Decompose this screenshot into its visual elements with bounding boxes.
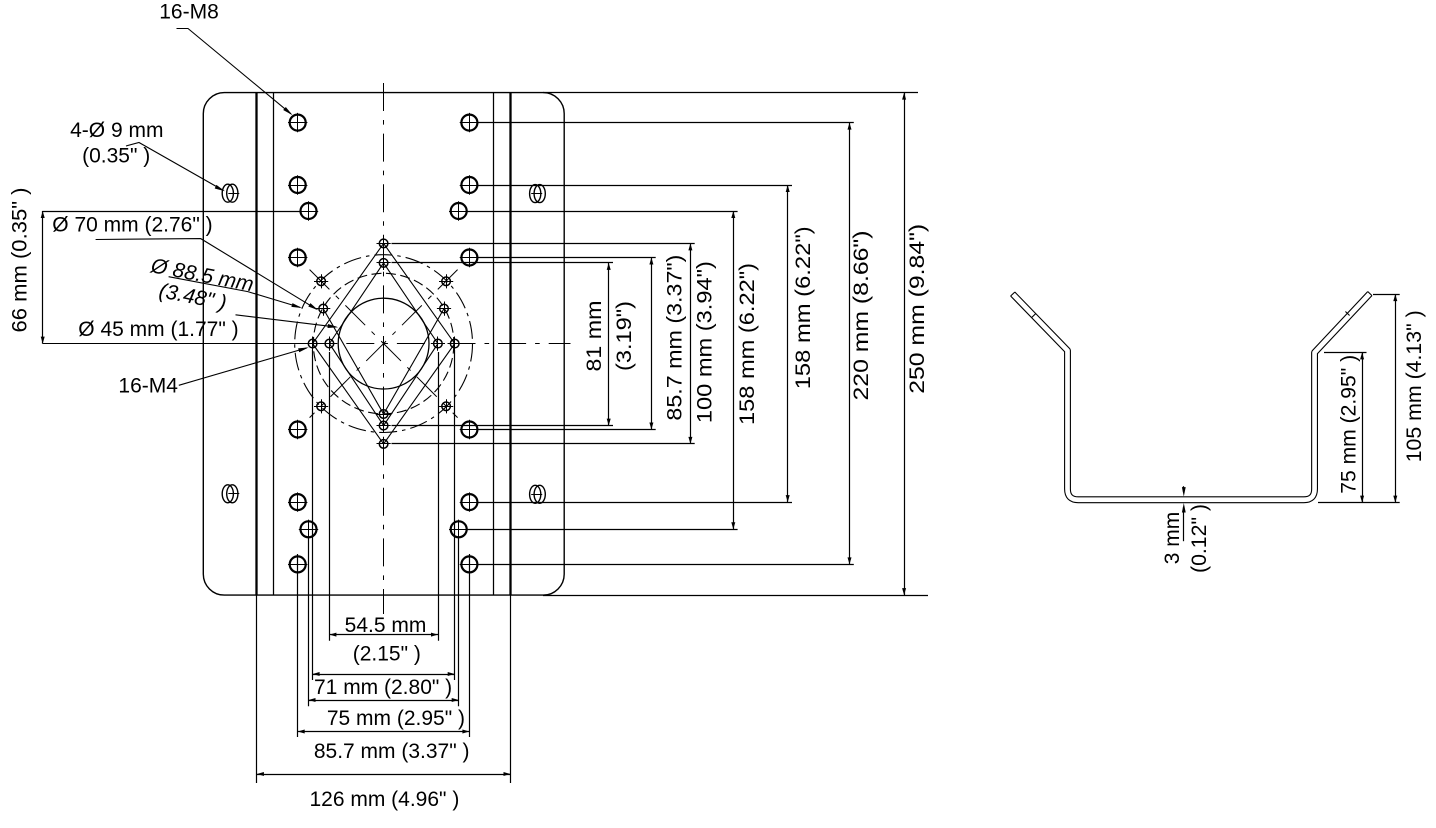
M8 hole left offset top: [299, 201, 318, 220]
svg-text:16-M8: 16-M8: [159, 1, 219, 24]
dim 3 mm lower leader: [1182, 503, 1186, 541]
svg-text:(3.19"): (3.19"): [613, 301, 636, 371]
extension line offset hole left: [308, 537, 310, 706]
M8 hole right offset bottom: [449, 520, 468, 539]
M4 hole upper-left 45deg: [314, 274, 328, 288]
bend line left (thick): [255, 93, 257, 595]
oval hole D9 bottom-right: [530, 485, 546, 503]
extension line M8 column right: [469, 554, 471, 737]
V line right: [384, 309, 444, 414]
M4 hole bottom D70: [377, 407, 391, 421]
M4 hole top outer: [377, 236, 391, 250]
extension line M4 bottom inner: [392, 425, 614, 427]
svg-text:85.7 mm (3.37" ): 85.7 mm (3.37" ): [314, 740, 470, 763]
dim line 250 mm: [902, 93, 906, 595]
extension line channel inner bend: [1324, 352, 1367, 354]
extension line 66mm lower (solid overlay): [43, 343, 309, 345]
oval hole D9 bottom-left: [222, 485, 239, 503]
extension line offset row bottom: [467, 529, 738, 531]
extension line channel bottom: [1318, 502, 1400, 504]
svg-text:Ø 45 mm (1.77" ): Ø 45 mm (1.77" ): [78, 318, 238, 341]
extension line offset row top: [467, 211, 738, 213]
dim line 75 mm channel: [1360, 352, 1364, 502]
M8 hole right offset top: [449, 201, 468, 220]
svg-text:71 mm (2.80" ): 71 mm (2.80" ): [314, 676, 452, 699]
extension line bend line left: [256, 595, 258, 783]
dim line 100 mm: [688, 243, 692, 444]
extension line channel flange top: [1373, 294, 1400, 296]
extension line M8 row4: [477, 429, 655, 431]
dim line 66 mm: [41, 211, 45, 344]
dim line 105 mm channel: [1393, 294, 1397, 503]
V line left: [323, 309, 383, 414]
oval hole D9 top-left: [222, 184, 239, 202]
fold relief line right (thin): [493, 93, 495, 595]
diagonal centerline NW-SE (dash-dot): [310, 270, 458, 418]
svg-text:(0.12" ): (0.12" ): [1188, 504, 1211, 573]
bolt circle D70 (dashed): [313, 273, 454, 414]
channel left tip cap: [1011, 292, 1015, 296]
bolt circle D88.5 (dash-dot): [295, 255, 473, 433]
extension line M4 right outer: [454, 350, 456, 680]
svg-text:75 mm (2.95" ): 75 mm (2.95" ): [327, 707, 465, 730]
vertical centerline: [383, 83, 385, 614]
dim line 85.7 mm bottom: [298, 730, 470, 734]
inner rhombus: [329, 263, 438, 426]
M4 hole top inner: [377, 256, 391, 270]
svg-text:81 mm: 81 mm: [583, 301, 606, 372]
M4 hole right inner: [431, 337, 445, 351]
M4 hole left outer: [306, 337, 320, 351]
M4 hole left inner: [322, 337, 336, 351]
extension line M8 row3: [477, 257, 655, 259]
extension line M8 column left: [297, 554, 299, 737]
oval hole D9 top-right: [530, 185, 546, 203]
svg-text:(2.15" ): (2.15" ): [353, 643, 421, 666]
extension line M8 row5: [477, 502, 792, 504]
M8 hole right row3: [460, 248, 479, 267]
svg-text:4-Ø 9 mm: 4-Ø 9 mm: [70, 119, 163, 142]
dim line 126 mm: [257, 772, 511, 776]
extension line M4 bottom outer: [392, 443, 695, 445]
M8 hole left row6: [288, 555, 307, 574]
leader 16-M8: [177, 29, 293, 116]
M8 hole left row4: [288, 420, 307, 439]
M8 hole right row2: [460, 175, 479, 194]
diagonal centerline NE-SW (dash-dot): [310, 270, 458, 418]
leader D70: [96, 239, 319, 311]
extension line M4 top outer: [392, 243, 695, 245]
extension line M4 top inner: [392, 262, 614, 264]
dim line 71 mm: [313, 672, 455, 676]
M4 hole bottom inner: [377, 419, 391, 433]
dim line 85.7 mm vertical: [649, 258, 653, 430]
svg-text:158 mm (6.22"): 158 mm (6.22"): [736, 263, 759, 425]
extension line M4 right inner: [438, 352, 440, 641]
svg-text:75 mm (2.95" ): 75 mm (2.95" ): [1338, 355, 1361, 494]
M4 hole right outer: [448, 337, 462, 351]
dim line 54.5 mm: [329, 633, 438, 637]
M8 hole right row4: [460, 420, 479, 439]
svg-text:105 mm (4.13" ): 105 mm (4.13" ): [1403, 310, 1426, 462]
channel cross-section profile: [1013, 294, 1370, 500]
plate outline: [203, 93, 564, 595]
svg-text:220 mm (8.66"): 220 mm (8.66"): [850, 231, 873, 401]
extension line offset hole right: [458, 537, 460, 706]
extension line M8 row1: [477, 122, 854, 124]
M8 hole right row5: [460, 492, 479, 511]
extension line bend line right: [510, 595, 512, 783]
center hole circle D45: [338, 298, 429, 389]
M4 hole upper-left 30deg: [316, 302, 330, 316]
M8 hole right row6: [460, 555, 479, 574]
svg-text:100 mm (3.94"): 100 mm (3.94"): [693, 261, 716, 423]
svg-text:Ø 70 mm (2.76" ): Ø 70 mm (2.76" ): [52, 214, 212, 237]
svg-text:16-M4: 16-M4: [118, 374, 178, 397]
M4 hole bottom outer: [377, 437, 391, 451]
leader D88.5: [169, 277, 302, 308]
M4 hole lower-right 45deg: [439, 399, 453, 413]
svg-text:85.7 mm (3.37"): 85.7 mm (3.37"): [664, 255, 687, 421]
dim line 81 mm: [607, 263, 611, 426]
dim line 220 mm: [848, 123, 852, 565]
svg-text:(0.35" ): (0.35" ): [82, 145, 150, 168]
svg-text:54.5 mm: 54.5 mm: [345, 614, 427, 637]
M8 hole left row3: [288, 248, 307, 267]
M8 hole left row1: [288, 113, 307, 132]
M8 hole right row1: [460, 113, 479, 132]
extension line plate bottom edge: [543, 595, 928, 597]
dim line 158 mm inner: [731, 211, 735, 529]
svg-text:158 mm (6.22"): 158 mm (6.22"): [792, 226, 815, 389]
leader D45: [236, 315, 339, 328]
M8 hole left row5: [288, 492, 307, 511]
extension line plate top edge: [543, 92, 918, 94]
M4 hole lower-left 45deg: [314, 399, 328, 413]
dim 3 mm upper leader: [1182, 486, 1186, 496]
svg-text:250 mm (9.84"): 250 mm (9.84"): [906, 224, 929, 394]
channel left flange joint tick: [1032, 313, 1036, 317]
channel right tip cap: [1368, 292, 1372, 296]
leader 4-D9: [126, 143, 225, 192]
dim line 158 mm outer: [786, 185, 790, 502]
bend line right (thick): [509, 93, 511, 595]
dim line 75 mm: [309, 698, 459, 702]
svg-text:66 mm (0.35" ): 66 mm (0.35" ): [9, 188, 32, 333]
M8 hole left row2: [288, 175, 307, 194]
channel right flange joint tick: [1345, 312, 1349, 316]
extension line offset row left: [42, 211, 301, 213]
extension line M8 row2: [477, 185, 792, 187]
svg-text:3 mm: 3 mm: [1161, 512, 1184, 565]
extension line M4 left inner: [329, 352, 331, 641]
outer rhombus: [313, 243, 455, 444]
fold relief line left (thin): [273, 93, 275, 595]
M4 hole upper-right 45deg: [439, 274, 453, 288]
svg-text:126 mm (4.96" ): 126 mm (4.96" ): [309, 788, 459, 811]
extension line M8 row6: [477, 564, 854, 566]
M4 hole upper-right 30deg: [437, 302, 451, 316]
extension line M4 left outer: [312, 350, 314, 680]
horizontal centerline: [43, 343, 571, 345]
leader 16-M4: [179, 347, 309, 385]
M8 hole left offset bottom: [299, 520, 318, 539]
